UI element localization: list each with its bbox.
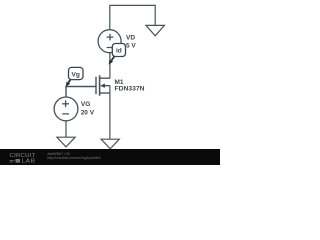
ground GND top-right [146,25,164,35]
svg-text:20 V: 20 V [81,110,95,117]
watermark bar [0,149,220,165]
gate bar [95,77,97,94]
source tap [100,92,111,94]
voltage source VD [98,30,121,53]
voltage source VG [54,97,78,121]
channel bar [99,75,101,95]
bulk tap with arrow [103,85,110,87]
svg-text:http://circuitlab.com/ce/img2/: http://circuitlab.com/ce/img2/pra9fe5 [47,156,101,160]
svg-text:VD: VD [126,35,135,42]
wire VD top to ground corner [110,5,155,29]
wire gate to VG [66,87,96,97]
svg-text:id: id [116,48,122,55]
wire VG bottom to ground [65,120,67,137]
wire VD bottom to drain [109,53,111,79]
svg-text:FDN337N: FDN337N [115,86,145,93]
transistor M1 NMOS [96,75,110,139]
svg-text:Vg: Vg [72,71,80,78]
current probe id callout [109,44,126,65]
svg-text:VG: VG [81,101,90,108]
node Vg callout [66,67,83,86]
bulk-source link and source lead [109,86,111,140]
svg-text:LAB: LAB [22,159,36,165]
ground GND at M1 source [101,139,119,149]
svg-text:5 V: 5 V [126,43,136,50]
ground GND at VG [57,137,75,147]
drain tap [100,77,111,79]
